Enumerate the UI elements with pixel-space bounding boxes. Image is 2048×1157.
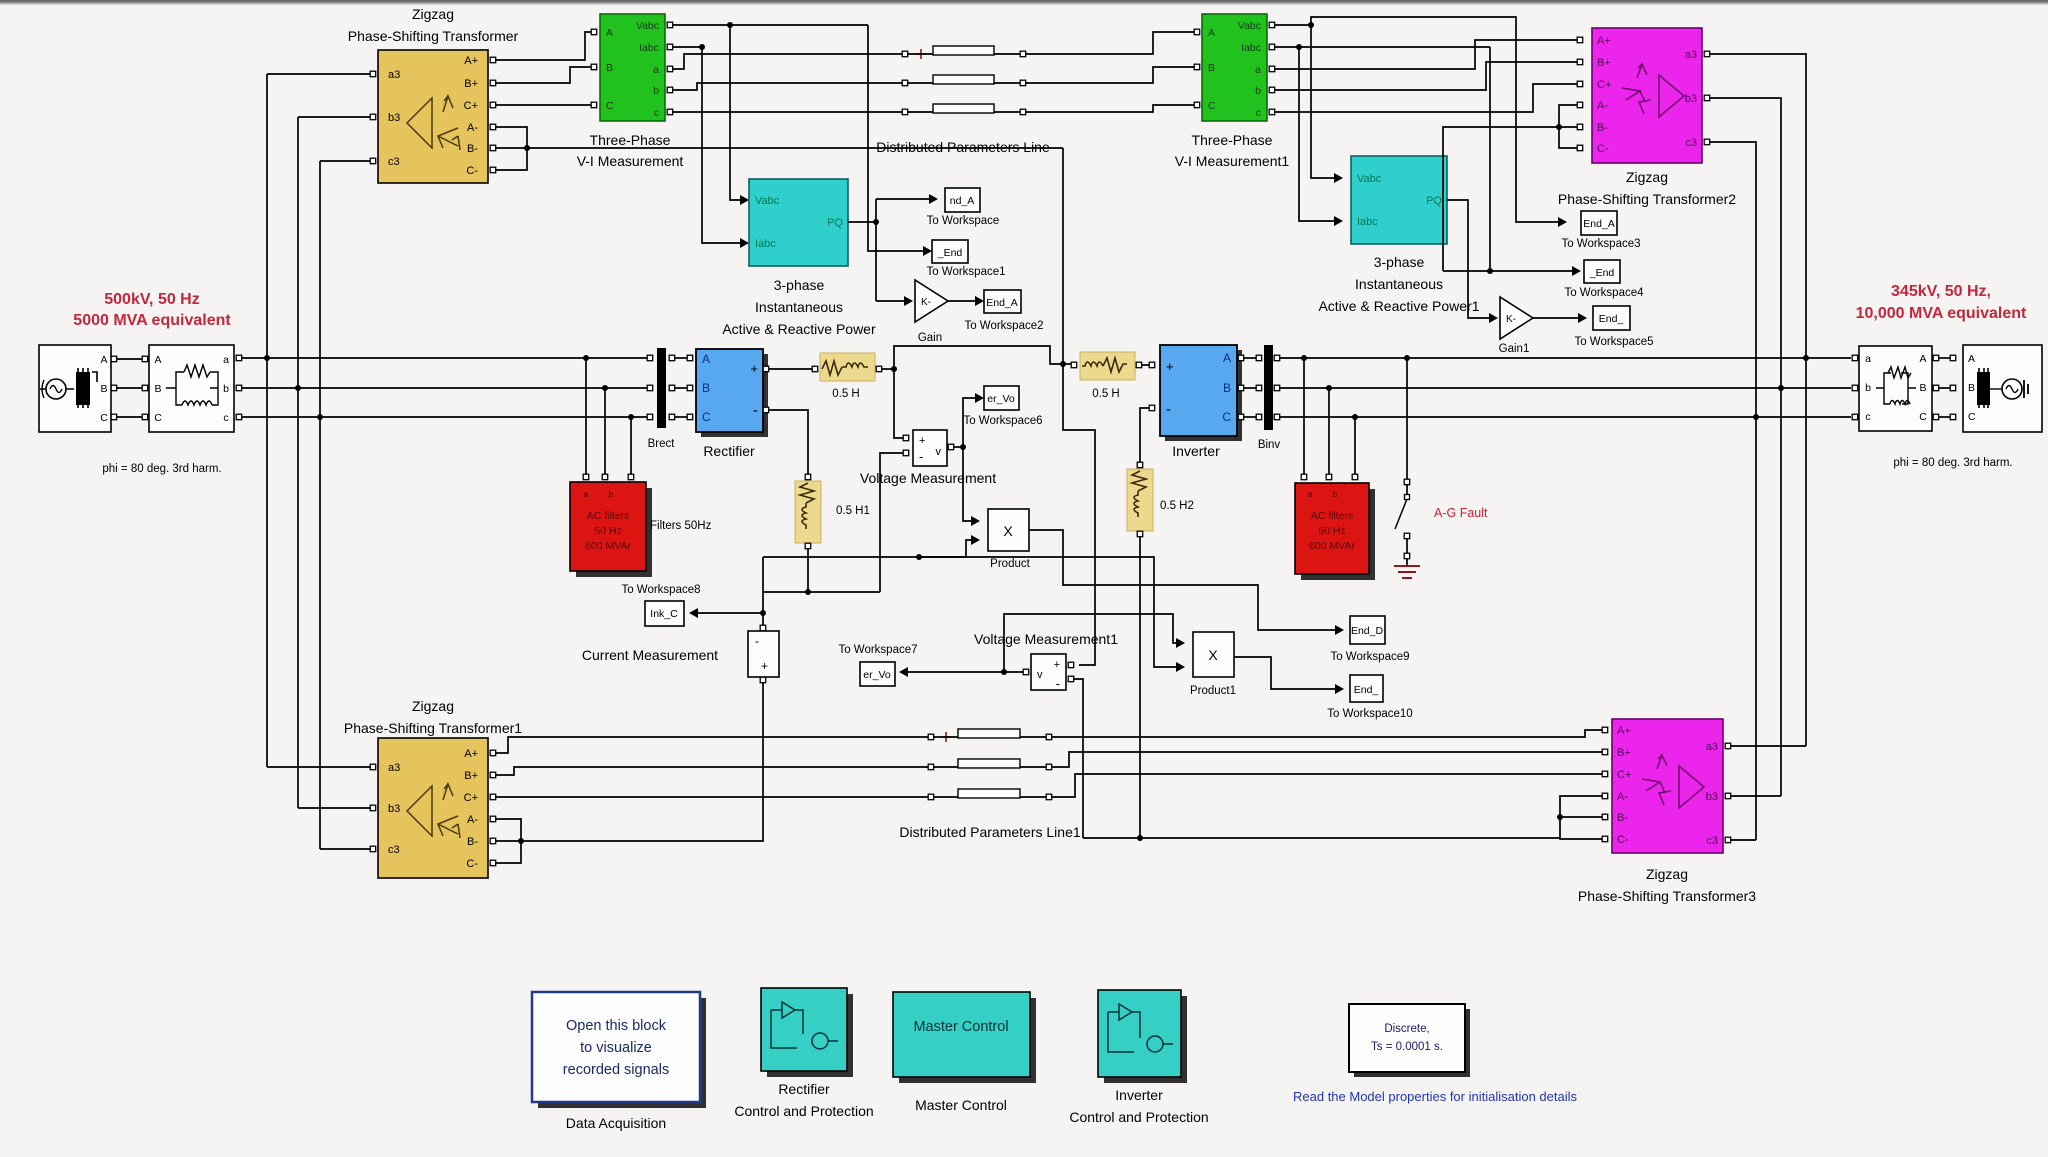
- wire rectifier - down to 0.5 H1: [769, 410, 811, 480]
- wire line1 output b to transformer3 B+: [1052, 752, 1602, 767]
- to workspace block End_ (To Workspace10): [1327, 675, 1412, 720]
- svg-text:Master Control: Master Control: [913, 1019, 1008, 1035]
- to workspace block nd_A (To Workspace): [927, 188, 1000, 227]
- svg-text:600 MVAr: 600 MVAr: [1309, 540, 1355, 552]
- to workspace block Ink_C (To Workspace8): [621, 584, 700, 626]
- inverter block (blue): [1149, 345, 1242, 441]
- three-phase bus line C (right): [1280, 416, 1851, 418]
- wire transformer1 C+ to line1 input c: [496, 796, 928, 798]
- AC filter taps from bus (right): [1301, 355, 1358, 480]
- three-phase V-I measurement1 block (right, green): [1194, 14, 1275, 121]
- label Inverter: [1172, 443, 1220, 459]
- svg-text:B: B: [1968, 382, 1975, 394]
- svg-text:345kV, 50 Hz,: 345kV, 50 Hz,: [1891, 283, 1991, 300]
- svg-text:A: A: [1223, 351, 1231, 365]
- svg-text:Iabc: Iabc: [1241, 42, 1261, 54]
- svg-text:Gain1: Gain1: [1499, 343, 1530, 355]
- svg-text:To Workspace3: To Workspace3: [1561, 238, 1640, 250]
- svg-text:B: B: [702, 381, 710, 395]
- smoothing reactor 0.5 H right: [1080, 352, 1142, 400]
- label Zigzag Phase-Shifting Transformer1: [344, 698, 522, 736]
- svg-text:A: A: [702, 352, 710, 366]
- svg-text:Inverter: Inverter: [1172, 443, 1220, 459]
- svg-text:C+: C+: [1617, 769, 1631, 781]
- label Zigzag Phase-Shifting Transformer3: [1578, 866, 1756, 904]
- svg-text:phi = 80 deg. 3rd harm.: phi = 80 deg. 3rd harm.: [1893, 457, 2012, 469]
- svg-text:B: B: [606, 62, 613, 74]
- transformer2 output port squares: [1704, 51, 1710, 145]
- to workspace block _End (To Workspace1): [926, 240, 1005, 278]
- svg-text:PQ: PQ: [1426, 195, 1442, 207]
- transformer output port squares (top left): [490, 57, 496, 173]
- svg-text:B: B: [154, 383, 161, 395]
- svg-text:K-: K-: [1506, 314, 1516, 325]
- svg-text:c3: c3: [1706, 835, 1718, 847]
- Brect bus bar: [647, 348, 693, 450]
- svg-text:A: A: [1919, 353, 1926, 365]
- svg-text:Ts = 0.0001 s.: Ts = 0.0001 s.: [1371, 1041, 1443, 1053]
- svg-text:500kV, 50 Hz: 500kV, 50 Hz: [104, 291, 199, 308]
- label Three-Phase V-I Measurement1: [1175, 132, 1290, 169]
- svg-text:b: b: [653, 85, 659, 97]
- svg-text:b: b: [609, 490, 614, 499]
- port squares between RL and source (right): [1933, 355, 1956, 420]
- svg-text:AC filters: AC filters: [587, 510, 630, 522]
- wire product lower input from mid DC rail: [916, 535, 980, 560]
- svg-text:Phase-Shifting Transformer2: Phase-Shifting Transformer2: [1558, 191, 1736, 207]
- svg-text:C: C: [1222, 410, 1231, 424]
- stub wires into Zigzag Phase-Shifting Transformer inputs: [267, 71, 376, 164]
- svg-text:a3: a3: [388, 69, 400, 81]
- svg-text:C+: C+: [1597, 79, 1611, 91]
- svg-text:c: c: [654, 107, 659, 119]
- wire product1 output to To Workspace10: [1234, 657, 1344, 694]
- wire line output 2 to V-I measurement1 B: [1026, 67, 1197, 83]
- svg-text:Iabc: Iabc: [639, 42, 659, 54]
- distributed parameters line1 segment 3: [928, 789, 1051, 800]
- wire transformer3 b3 up to bus (join x1781): [1731, 795, 1781, 797]
- wye bracket of transformer3 (node W4): [1557, 796, 1602, 839]
- svg-text:b: b: [1865, 382, 1871, 394]
- svg-text:C-: C-: [1597, 143, 1609, 155]
- svg-text:Phase-Shifting Transformer: Phase-Shifting Transformer: [348, 28, 519, 44]
- stub wires into transformer1 inputs: [267, 767, 371, 849]
- svg-text:Active & Reactive Power: Active & Reactive Power: [722, 321, 876, 337]
- svg-text:End_: End_: [1354, 684, 1379, 696]
- svg-text:nd_A: nd_A: [950, 195, 975, 207]
- series RLC branch block (left RL equivalent): [149, 345, 234, 432]
- svg-text:C: C: [702, 410, 711, 424]
- zigzag phase-shifting transformer3 block (magenta): [1612, 719, 1723, 853]
- svg-text:B+: B+: [1597, 57, 1611, 69]
- to workspace block _End (To Workspace4): [1564, 260, 1644, 299]
- svg-text:X: X: [1208, 647, 1218, 663]
- svg-text:3-phase: 3-phase: [1374, 254, 1425, 270]
- svg-text:AC filters: AC filters: [1311, 510, 1354, 522]
- svg-text:To Workspace9: To Workspace9: [1330, 651, 1409, 663]
- svg-text:a: a: [1865, 353, 1871, 365]
- svg-text:B+: B+: [1617, 747, 1631, 759]
- svg-text:Distributed Parameters Line: Distributed Parameters Line: [876, 139, 1050, 155]
- label Current Measurement: [582, 647, 718, 663]
- svg-text:To Workspace1: To Workspace1: [926, 266, 1005, 278]
- wire Vabc1 with junction to PQ1 and To Workspace3: [1275, 17, 1567, 227]
- label Filters 50Hz: [650, 520, 712, 532]
- label Data Acquisition: [566, 1115, 666, 1131]
- svg-text:A+: A+: [1597, 35, 1611, 47]
- svg-text:To Workspace: To Workspace: [927, 215, 1000, 227]
- wire inverter - to 0.5 H2: [1137, 408, 1149, 468]
- svg-text:-: -: [753, 402, 758, 419]
- wire VM1 v output junction to To Workspace7 and Product1 (node VV1): [899, 614, 1185, 677]
- wire b1 to transformer2 B+: [1275, 62, 1577, 90]
- svg-text:Read the Model properties for: Read the Model properties for initialisa…: [1293, 1089, 1577, 1104]
- label Master Control: [915, 1097, 1007, 1113]
- rectifier DC output port squares: [763, 366, 769, 413]
- to workspace block er_Vo (To Workspace6): [963, 386, 1042, 427]
- svg-text:phi = 80 deg. 3rd harm.: phi = 80 deg. 3rd harm.: [102, 463, 221, 475]
- rectifier block (blue): [696, 349, 768, 437]
- port squares between source and RL block (left): [111, 356, 148, 420]
- label Voltage Measurement1: [974, 631, 1118, 647]
- wire product output to To Workspace9 (long run): [1029, 530, 1344, 635]
- svg-text:B+: B+: [464, 770, 478, 782]
- svg-text:b3: b3: [388, 803, 400, 815]
- voltage source block (345kV equivalent): [1963, 345, 2042, 432]
- svg-text:B-: B-: [467, 143, 478, 155]
- voltage measurement1 block (mirrored): [1023, 654, 1073, 691]
- svg-text:a3: a3: [1706, 741, 1718, 753]
- svg-text:_End: _End: [1589, 267, 1615, 279]
- svg-text:_End: _End: [937, 247, 963, 259]
- label Inverter Control and Protection: [1069, 1087, 1208, 1125]
- wye bracket of transformer1 (node W3): [496, 819, 524, 863]
- svg-text:Ink_C: Ink_C: [650, 608, 678, 620]
- label Distributed Parameters Line: [876, 139, 1050, 155]
- wire transformer3 a3 up to bus (join x1806): [1731, 745, 1806, 747]
- svg-text:V-I Measurement: V-I Measurement: [577, 153, 684, 169]
- three-phase bus line C (left): [237, 416, 649, 418]
- svg-text:To Workspace8: To Workspace8: [621, 584, 700, 596]
- svg-text:Phase-Shifting Transformer1: Phase-Shifting Transformer1: [344, 720, 522, 736]
- smoothing reactor 0.5 H1 (vertical): [795, 481, 870, 549]
- svg-text:+: +: [761, 659, 768, 673]
- svg-text:c: c: [1256, 107, 1261, 119]
- wire feed into To Workspace4: [1443, 266, 1581, 276]
- svg-text:B-: B-: [1617, 812, 1628, 824]
- label phi = 80 deg 3rd harm (left): [102, 463, 221, 475]
- left rail vertical to current measurement (junction J3): [760, 557, 766, 628]
- wire a1 to transformer2 A+: [1275, 40, 1577, 69]
- svg-text:Master Control: Master Control: [915, 1097, 1007, 1113]
- bus output port squares of RL block (left): [236, 355, 242, 420]
- transformer3 port squares: [1602, 727, 1731, 843]
- svg-text:Vabc: Vabc: [1238, 20, 1261, 32]
- mid rail horizontal y557 to Product1: [763, 557, 1185, 672]
- AC filter taps from bus (left): [583, 355, 634, 480]
- wye bracket A-/B-/C- of transformer2 (node W2): [1556, 105, 1577, 148]
- low rail horizontal y592: [763, 591, 880, 593]
- DC link wire to inverter side (top pole): [894, 346, 1062, 369]
- wire rectifier + to smoothing reactor 0.5 H: [769, 366, 818, 372]
- svg-text:Rectifier: Rectifier: [778, 1081, 830, 1097]
- product block (Product): [988, 509, 1031, 570]
- svg-text:To Workspace6: To Workspace6: [963, 415, 1042, 427]
- svg-text:Instantaneous: Instantaneous: [755, 299, 843, 315]
- svg-text:-: -: [1056, 676, 1060, 691]
- svg-text:er_Vo: er_Vo: [863, 669, 891, 681]
- svg-text:3-phase: 3-phase: [774, 277, 825, 293]
- wire junction to To Workspace8: [689, 608, 763, 618]
- svg-text:Inverter: Inverter: [1115, 1087, 1163, 1103]
- wire line output 1 to V-I measurement1 A: [1026, 32, 1197, 54]
- wire DC node down to voltage measurement1 +: [1063, 364, 1095, 665]
- svg-text:A+: A+: [464, 55, 478, 67]
- wire line1 output c to transformer3 C+: [1052, 774, 1602, 797]
- svg-text:v: v: [1037, 669, 1043, 681]
- svg-text:Voltage Measurement1: Voltage Measurement1: [974, 631, 1118, 647]
- svg-text:-: -: [755, 634, 759, 648]
- svg-text:Product1: Product1: [1190, 685, 1236, 697]
- wire c1 to transformer2 C+: [1275, 84, 1577, 112]
- svg-text:c: c: [1865, 411, 1870, 423]
- wire b output to distributed line input 2: [673, 83, 902, 90]
- smoothing reactor 0.5 H2 (vertical): [1127, 469, 1194, 537]
- svg-text:c3: c3: [1685, 137, 1697, 149]
- AC filters block (right, red): [1295, 483, 1375, 580]
- svg-text:Three-Phase: Three-Phase: [590, 132, 671, 148]
- label Distributed Parameters Line1: [899, 824, 1081, 840]
- discrete solver block: [1349, 1004, 1470, 1077]
- svg-text:K-: K-: [921, 297, 931, 308]
- wire transformer1 B+ to line1 input b: [496, 767, 928, 775]
- svg-text:C: C: [1919, 411, 1927, 423]
- label 3-phase Instantaneous Active & Reactive Power1: [1318, 254, 1479, 314]
- to workspace block End_D (To Workspace9): [1330, 616, 1409, 663]
- svg-text:b: b: [1255, 85, 1261, 97]
- label Rectifier Control and Protection: [734, 1081, 873, 1119]
- svg-text:X: X: [1003, 523, 1013, 539]
- svg-text:Vabc: Vabc: [755, 195, 780, 207]
- wire C+ to V-I measurement C: [496, 104, 594, 106]
- svg-text:C: C: [606, 100, 614, 112]
- svg-text:+: +: [919, 435, 925, 447]
- wire current measurement to transformer1 wye: [524, 683, 763, 841]
- wire Vabc out with junction (node V1): [673, 22, 868, 28]
- wire DC node to reactor 0.5H right: [1063, 362, 1077, 368]
- wye bracket A-/B-/C- of transformer (node W1): [496, 127, 530, 170]
- svg-text:B-: B-: [1597, 122, 1608, 134]
- wire Vabc branch down to PQ block Vabc input: [730, 25, 749, 205]
- 3-phase instantaneous active & reactive power block (left, cyan): [749, 179, 848, 266]
- voltage measurement block (left): [903, 430, 954, 466]
- AC filters 50Hz 600 MVAr block (left, red): [570, 482, 652, 577]
- svg-text:C: C: [100, 412, 108, 424]
- svg-text:50 Hz: 50 Hz: [1318, 525, 1345, 537]
- to workspace block End_ (To Workspace5): [1574, 306, 1653, 348]
- svg-text:Vabc: Vabc: [1357, 173, 1382, 185]
- svg-text:c3: c3: [388, 844, 400, 856]
- svg-text:Data Acquisition: Data Acquisition: [566, 1115, 666, 1131]
- three-phase bus line B (right): [1280, 387, 1851, 389]
- label Zigzag Phase-Shifting Transformer (top left): [348, 6, 519, 44]
- wire gain output to To Workspace2: [948, 296, 984, 306]
- label Voltage Measurement: [860, 470, 996, 486]
- svg-text:5000 MVA equivalent: 5000 MVA equivalent: [73, 312, 231, 329]
- svg-text:50 Hz: 50 Hz: [594, 525, 621, 537]
- svg-text:Instantaneous: Instantaneous: [1355, 276, 1443, 292]
- svg-text:B: B: [1208, 62, 1215, 74]
- to workspace block End_A (To Workspace2): [964, 290, 1043, 332]
- svg-text:Zigzag: Zigzag: [1646, 866, 1688, 882]
- wire B+ to V-I measurement B: [496, 67, 594, 83]
- inverter control and protection block (cyan): [1098, 990, 1187, 1083]
- svg-text:C: C: [1968, 411, 1976, 423]
- label Rectifier: [703, 443, 755, 459]
- transformer1 port squares: [370, 750, 496, 866]
- svg-text:A+: A+: [464, 748, 478, 760]
- wire PQ output with branches (node PQ1): [848, 194, 938, 306]
- svg-text:A: A: [1968, 353, 1975, 365]
- svg-text:End_: End_: [1599, 313, 1624, 325]
- svg-text:A-: A-: [1597, 100, 1608, 112]
- svg-text:b: b: [1333, 490, 1338, 499]
- svg-text:er_Vo: er_Vo: [987, 393, 1015, 405]
- svg-text:V-I Measurement1: V-I Measurement1: [1175, 153, 1290, 169]
- wire phase C to transformer c3 ports (vertical x320): [317, 161, 323, 849]
- distributed parameters line1 segment 2: [928, 759, 1051, 770]
- svg-text:10,000 MVA equivalent: 10,000 MVA equivalent: [1856, 305, 2027, 322]
- red label 345kV 50 Hz / 10000 MVA equivalent: [1856, 283, 2027, 322]
- transformer2 input port squares: [1577, 37, 1583, 151]
- svg-text:-: -: [919, 449, 923, 464]
- wire reactor to inverter +: [1142, 362, 1155, 368]
- wire transformer2 c3 down to bus phase C (vertical x1756): [1710, 142, 1759, 840]
- wire c output to distributed line input 3: [673, 111, 902, 113]
- smoothing reactor 0.5 H (left): [820, 353, 882, 400]
- svg-text:a: a: [1255, 64, 1261, 76]
- svg-text:A: A: [154, 354, 161, 366]
- svg-text:A-G Fault: A-G Fault: [1434, 506, 1488, 520]
- svg-text:Brect: Brect: [648, 438, 676, 450]
- svg-text:Rectifier: Rectifier: [703, 443, 755, 459]
- svg-text:C+: C+: [464, 100, 478, 112]
- svg-text:A: A: [100, 354, 107, 366]
- svg-text:0.5 H: 0.5 H: [1092, 388, 1120, 400]
- data acquisition block: [532, 992, 706, 1108]
- svg-text:To Workspace5: To Workspace5: [1574, 336, 1653, 348]
- svg-text:To Workspace10: To Workspace10: [1327, 708, 1412, 720]
- rectifier control and protection block (cyan): [761, 988, 853, 1077]
- wire VM v output junction (node VV): [954, 393, 984, 526]
- wire Gain1 to To Workspace5: [1533, 313, 1587, 323]
- svg-text:Control and Protection: Control and Protection: [1069, 1109, 1208, 1125]
- svg-text:Zigzag: Zigzag: [1626, 169, 1668, 185]
- svg-text:Iabc: Iabc: [755, 238, 776, 250]
- three-phase bus line A (left): [237, 357, 649, 359]
- svg-text:b3: b3: [1685, 93, 1697, 105]
- product1 block (Product1): [1190, 632, 1236, 697]
- svg-text:a: a: [653, 64, 659, 76]
- svg-text:v: v: [936, 446, 942, 458]
- svg-text:+: +: [1166, 359, 1174, 374]
- svg-text:C: C: [1208, 100, 1216, 112]
- three-phase bus line A (right): [1280, 357, 1851, 359]
- wye wire to inverter-side DC tap (long horizontal y148): [527, 147, 1063, 149]
- wire PQ1 output to Gain1: [1447, 200, 1498, 323]
- svg-text:a: a: [1308, 490, 1313, 499]
- distributed parameters line segment 2: [902, 75, 1025, 86]
- wire transformer2 b3 down to bus phase B (vertical x1781): [1710, 98, 1784, 796]
- wye tail wire of transformer2: [1443, 127, 1559, 271]
- svg-text:a: a: [223, 354, 229, 366]
- svg-text:A: A: [606, 27, 613, 39]
- svg-text:To Workspace7: To Workspace7: [838, 644, 917, 656]
- svg-text:c: c: [223, 412, 228, 424]
- label 3-phase Instantaneous Active & Reactive Power: [722, 277, 876, 337]
- svg-text:Open this block: Open this block: [566, 1018, 667, 1034]
- wire line1 output a to transformer3 A+: [1052, 730, 1602, 737]
- svg-text:C+: C+: [464, 792, 478, 804]
- current measurement block: [748, 625, 779, 683]
- zigzag phase-shifting transformer block (top left): [378, 50, 488, 183]
- svg-text:Zigzag: Zigzag: [412, 698, 454, 714]
- label Three-Phase V-I Measurement (left): [577, 132, 684, 169]
- wire rail up to voltage measurement -: [880, 453, 903, 592]
- svg-text:0.5 H2: 0.5 H2: [1160, 500, 1194, 512]
- svg-text:B: B: [100, 383, 107, 395]
- svg-text:Distributed Parameters Line1: Distributed Parameters Line1: [899, 824, 1081, 840]
- svg-text:-: -: [1166, 401, 1171, 418]
- svg-text:Control and Protection: Control and Protection: [734, 1103, 873, 1119]
- svg-text:a3: a3: [388, 762, 400, 774]
- label Zigzag Phase-Shifting Transformer2: [1558, 169, 1736, 207]
- svg-text:Filters 50Hz: Filters 50Hz: [650, 520, 712, 532]
- svg-text:to visualize: to visualize: [580, 1040, 652, 1056]
- series RLC branch block (right RL equivalent): [1852, 346, 1932, 431]
- wire phase A to transformer a3 ports (vertical x267): [264, 74, 270, 767]
- svg-text:Binv: Binv: [1258, 439, 1281, 451]
- wire phase B to transformer b3 ports (vertical x298): [295, 117, 301, 808]
- wire Iabc1 with junction to PQ1 and To Workspace4: [1275, 44, 1493, 274]
- svg-text:To Workspace2: To Workspace2: [964, 320, 1043, 332]
- wire Iabc out down to PQ block Iabc input: [673, 44, 749, 248]
- svg-text:C-: C-: [466, 858, 478, 870]
- svg-text:End_A: End_A: [1583, 218, 1615, 230]
- svg-text:End_A: End_A: [986, 297, 1018, 309]
- wire DC tap down from wye line (vertical x1063, node J4): [1060, 148, 1066, 367]
- svg-text:B: B: [1919, 382, 1926, 394]
- distributed parameters line segment 3: [902, 104, 1025, 115]
- wire reactor to DC node (junction J1): [882, 366, 897, 372]
- svg-text:Product: Product: [990, 558, 1030, 570]
- A-G fault breaker from bus phase A: [1395, 355, 1410, 559]
- svg-text:0.5 H: 0.5 H: [832, 388, 860, 400]
- wire 0.5 H2 down to transformer3 wye rail (junction J5): [1137, 537, 1143, 841]
- svg-text:Iabc: Iabc: [1357, 216, 1378, 228]
- to workspace block End_A (To Workspace3): [1561, 211, 1640, 250]
- wire line output 3 to V-I measurement1 C: [1026, 105, 1197, 112]
- 3-phase instantaneous active & reactive power1 block (right, cyan): [1351, 156, 1447, 244]
- zigzag phase-shifting transformer2 block (magenta): [1592, 28, 1702, 163]
- svg-text:A: A: [1208, 27, 1215, 39]
- label A-G Fault: [1434, 506, 1488, 520]
- svg-text:B+: B+: [464, 78, 478, 90]
- svg-text:b3: b3: [388, 112, 400, 124]
- voltage source block (500kV equivalent) with AC symbol: [39, 345, 111, 432]
- svg-text:Current Measurement: Current Measurement: [582, 647, 718, 663]
- to workspace block er_Vo (To Workspace7): [838, 644, 917, 686]
